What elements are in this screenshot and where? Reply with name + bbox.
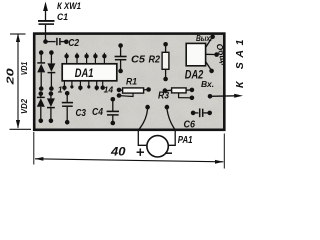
diode VD2 left cathode bar xyxy=(37,96,45,98)
svg-text:С1: С1 xyxy=(57,12,68,23)
svg-text:К XW1: К XW1 xyxy=(57,1,81,12)
R1 lower-left pad xyxy=(117,93,122,98)
svg-text:VD2: VD2 xyxy=(19,99,29,114)
dimension 20 arrow up xyxy=(16,33,20,42)
wire pad to C2 xyxy=(46,41,56,43)
R3 lower-right pad xyxy=(190,96,195,101)
diode VD2 left: pad top xyxy=(39,91,44,96)
meter PA1 circle xyxy=(147,136,168,157)
capacitor C3 xyxy=(66,93,68,102)
dimension 20 extension top xyxy=(10,33,26,35)
dimension 20 line xyxy=(17,35,19,128)
PA1 curved wire left xyxy=(139,109,148,130)
capacitor C5 xyxy=(120,46,122,57)
PA1 wire pad left xyxy=(145,105,150,110)
DA2 lead bottom xyxy=(206,62,211,70)
diode VD2 right triangle xyxy=(47,98,55,107)
diode VD1 right triangle xyxy=(47,63,55,72)
diode VD2 left wire bottom xyxy=(40,107,42,121)
dimension 40 arrow left xyxy=(35,157,44,161)
board speckle texture xyxy=(36,35,223,128)
wire C1 to board pad xyxy=(45,25,47,42)
DA2 pad Вых xyxy=(210,35,215,40)
capacitor C6 pad left xyxy=(191,111,196,116)
wire to SA1 xyxy=(210,95,236,98)
capacitor C3 pad bottom xyxy=(65,120,70,125)
voltage regulator DA2 body xyxy=(186,43,205,65)
dimension 40 extension left xyxy=(33,132,35,165)
svg-text:С2: С2 xyxy=(68,38,79,49)
svg-text:С3: С3 xyxy=(76,108,87,119)
meter PA1 bracket right xyxy=(168,131,175,146)
svg-text:С4: С4 xyxy=(92,107,103,118)
svg-text:С5: С5 xyxy=(131,54,145,66)
svg-text:Вых.: Вых. xyxy=(196,33,212,43)
diode VD2 right cathode bar xyxy=(47,107,55,109)
dimension 20 arrow down xyxy=(16,120,20,129)
DA2 pad Вх xyxy=(209,69,214,74)
svg-text:Вх.: Вх. xyxy=(201,79,214,89)
diode VD2 left triangle xyxy=(37,98,45,107)
diode VD1 left pad bottom xyxy=(39,86,44,91)
diode VD1 left wire bottom xyxy=(40,72,42,88)
resistor R1 pad left xyxy=(117,88,122,93)
capacitor C4 pad top xyxy=(111,97,116,102)
capacitor C5 pad bottom xyxy=(118,69,123,74)
diode VD2 right pad bottom xyxy=(49,119,54,124)
capacitor C1 xyxy=(38,20,55,22)
DA2 pad Общ xyxy=(214,52,219,57)
wire to XW1 xyxy=(45,10,47,21)
svg-text:40: 40 xyxy=(110,144,126,158)
op-amp DA1 body xyxy=(62,64,117,81)
pad SA1 wire xyxy=(208,94,213,99)
capacitor C5 pad top xyxy=(118,43,123,48)
board outline xyxy=(34,34,224,130)
diode VD1 right pad bottom xyxy=(49,86,54,91)
resistor R2 pad bottom xyxy=(163,77,168,82)
R3 under-wire xyxy=(179,93,192,98)
DA2 lead out top xyxy=(206,38,212,48)
R1 under-wire xyxy=(120,93,134,96)
dimension 40 arrow right xyxy=(215,160,224,164)
svg-text:VD1: VD1 xyxy=(19,62,29,76)
DA1 top pads xyxy=(64,54,106,58)
capacitor C4 pad bottom xyxy=(111,121,116,126)
DA1 bottom pin stubs xyxy=(64,81,102,91)
svg-text:С6: С6 xyxy=(184,119,196,131)
arrow to XW1 xyxy=(43,2,48,12)
dimension 20 extension bottom xyxy=(10,128,32,130)
svg-text:1: 1 xyxy=(58,84,63,94)
dimension 40 line xyxy=(35,159,223,162)
diode VD1 right wire top xyxy=(50,53,52,64)
DA1 top pin stubs xyxy=(67,53,105,64)
resistor R2 pad top xyxy=(163,42,168,47)
diode VD1 left: pad top xyxy=(39,50,44,55)
diode VD1 right wire bottom xyxy=(50,73,52,89)
svg-text:14: 14 xyxy=(104,85,114,95)
meter PA1 bracket left xyxy=(138,131,147,146)
PA1 curved wire right xyxy=(167,109,175,130)
diode VD2 right wire bottom xyxy=(50,108,52,121)
svg-text:20: 20 xyxy=(5,68,17,86)
capacitor C6 pad right xyxy=(207,111,212,116)
svg-text:R2: R2 xyxy=(149,53,161,65)
pad C2 right xyxy=(64,40,69,45)
svg-text:РА1: РА1 xyxy=(178,135,193,146)
diode VD1 right: pad top xyxy=(49,50,54,55)
PA1 minus sign xyxy=(165,152,172,154)
dimension 40 extension right xyxy=(223,134,225,169)
diode VD2 right: pad top xyxy=(49,91,54,96)
resistor R3 pad right xyxy=(190,88,195,93)
svg-text:DA1: DA1 xyxy=(75,66,94,80)
DA1 bottom pads xyxy=(62,85,105,90)
resistor R1 pad right xyxy=(146,87,151,92)
resistor R2 xyxy=(165,44,167,52)
PA1 plus sign xyxy=(137,151,144,153)
wire C2 to pad xyxy=(61,41,65,43)
arrow to SA1 xyxy=(234,94,243,98)
capacitor C4 xyxy=(112,99,114,111)
diode VD1 left wire top xyxy=(40,53,42,64)
diode VD1 right cathode bar xyxy=(48,72,56,74)
resistor R3 xyxy=(165,89,172,91)
diode VD2 left pad bottom xyxy=(39,119,44,124)
capacitor C3 pad top xyxy=(65,91,70,96)
pad C1 entry xyxy=(43,39,48,44)
diode VD2 right wire top xyxy=(50,94,52,99)
capacitor C2 xyxy=(56,38,58,46)
resistor R3 pad left xyxy=(163,88,168,93)
capacitor C6 xyxy=(193,112,198,114)
diode VD2 left wire top xyxy=(40,94,42,98)
diode VD1 left triangle xyxy=(37,64,45,73)
PA1 wire pad right xyxy=(165,105,170,110)
svg-text:R1: R1 xyxy=(126,76,137,87)
DA2 lead middle xyxy=(206,53,215,55)
resistor R1 xyxy=(119,89,123,91)
diode VD1 left cathode bar xyxy=(37,62,45,64)
